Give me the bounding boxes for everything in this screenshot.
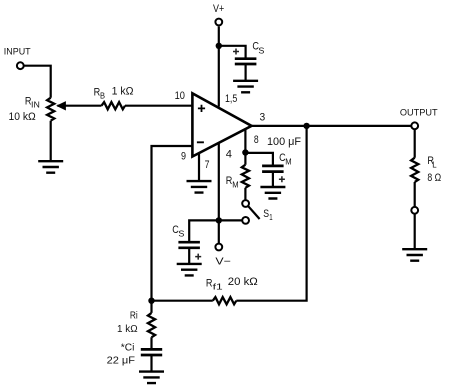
svg-text:V+: V+ (213, 3, 224, 15)
svg-text:100 μF: 100 μF (267, 136, 301, 148)
svg-text:S: S (263, 208, 269, 220)
svg-text:V−: V− (215, 256, 231, 267)
svg-text:1: 1 (269, 212, 273, 222)
svg-text:M: M (232, 179, 238, 189)
svg-text:10 kΩ: 10 kΩ (9, 111, 36, 123)
svg-text:B: B (100, 91, 105, 101)
svg-text:R: R (206, 277, 213, 289)
svg-text:Ri: Ri (130, 310, 138, 321)
svg-text:9: 9 (181, 150, 186, 162)
svg-text:10: 10 (175, 90, 185, 102)
svg-text:S: S (258, 45, 264, 55)
svg-text:*Ci: *Ci (121, 343, 135, 354)
svg-text:22 μF: 22 μF (107, 356, 135, 367)
svg-text:S: S (178, 229, 184, 239)
svg-text:4: 4 (226, 148, 232, 160)
svg-text:OUTPUT: OUTPUT (400, 108, 438, 118)
svg-text:7: 7 (205, 159, 210, 171)
svg-text:f1: f1 (213, 282, 223, 292)
svg-text:IN: IN (31, 100, 40, 110)
svg-text:20 kΩ: 20 kΩ (228, 276, 258, 288)
svg-text:1 kΩ: 1 kΩ (117, 324, 138, 335)
svg-text:M: M (285, 156, 291, 166)
svg-text:8: 8 (254, 134, 259, 146)
svg-text:3: 3 (260, 111, 266, 123)
svg-text:1 kΩ: 1 kΩ (112, 86, 134, 98)
svg-text:8 Ω: 8 Ω (427, 172, 441, 184)
svg-text:1,5: 1,5 (225, 93, 237, 105)
svg-text:INPUT: INPUT (4, 46, 31, 57)
svg-text:L: L (432, 159, 437, 169)
